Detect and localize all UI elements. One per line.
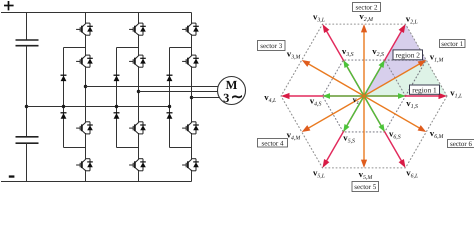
transistor S2c (IGBT with diode) (182, 55, 199, 68)
wire clamp link upper b (117, 47, 139, 49)
center node (362, 94, 365, 97)
wire leg c center (191, 68, 193, 122)
long vector v5,L arrow (327, 96, 365, 161)
sector 6 label box (448, 140, 474, 149)
medium vector v5,M arrow (363, 96, 365, 160)
sector 1 label box (440, 40, 466, 49)
wire leg b lower middle (138, 134, 140, 158)
outer hexagon (dotted) (281, 24, 447, 168)
medium vector v3,M arrow (308, 64, 364, 96)
svg-text:region 1: region 1 (412, 85, 437, 94)
diode D1c (167, 75, 173, 81)
capacitor C1 (16, 40, 39, 46)
short vector v2,S arrow (364, 66, 381, 96)
wire leg c upper middle (191, 36, 193, 55)
transistor S4a (IGBT with diode) (76, 158, 93, 171)
short vector v1,S arrow (364, 95, 399, 97)
wire leg a emitter (85, 171, 87, 181)
short vector v6,S arrow (364, 96, 381, 126)
sector 1 subdivision line v2S-v1M (dotted) (385, 59, 427, 61)
transistor S3c (IGBT with diode) (182, 121, 199, 134)
neutral point junction (25, 105, 28, 108)
sector 2 label box (353, 3, 381, 12)
transistor S4c (IGBT with diode) (182, 158, 199, 171)
short vector v3,S arrow (347, 66, 364, 96)
svg-text:sector 3: sector 3 (260, 42, 282, 50)
region 1 shading (sector 1 lower) (364, 60, 447, 96)
wire leg a collector (85, 13, 87, 23)
diode D2c (167, 113, 173, 119)
transistor S4b (IGBT with diode) (129, 158, 146, 171)
transistor S1c (IGBT with diode) (182, 23, 199, 36)
output node a (84, 85, 87, 88)
svg-text:∼: ∼ (231, 90, 244, 106)
transistor S2a (IGBT with diode) (76, 55, 93, 68)
sector 4 label box (258, 139, 288, 148)
wire leg a lower middle (85, 134, 87, 158)
wire leg c emitter (191, 171, 193, 181)
DC- bus wire (1, 181, 192, 183)
inner hexagon (dotted) (323, 60, 406, 132)
medium vector v6,M arrow (364, 96, 420, 128)
wire leg b upper middle (138, 36, 140, 55)
wire phase output a (86, 86, 220, 88)
wire phase output b (139, 91, 220, 93)
wire phase output c (192, 97, 220, 99)
long vector v4,L arrow (289, 95, 364, 97)
DC+ bus wire (1, 12, 192, 14)
neutral junction c (168, 105, 171, 108)
wire clamp link lower a (64, 147, 86, 149)
region 2 label box (393, 50, 423, 60)
neutral junction a (62, 105, 65, 108)
minus terminal (9, 175, 15, 177)
long vector v2,L arrow (364, 31, 402, 96)
short vector v4,S arrow (330, 95, 365, 97)
wire leg b center (138, 68, 140, 122)
long vector v6,L arrow (364, 96, 402, 161)
wire leg b collector (138, 13, 140, 23)
capacitor C2 (16, 137, 39, 143)
wire DC-link top (26, 13, 28, 41)
svg-text:sector 5: sector 5 (354, 183, 376, 191)
region 2 shading (sector 1 upper) (364, 24, 426, 96)
sector 3 label box (258, 41, 286, 51)
neutral rail wire (27, 106, 170, 108)
transistor S3a (IGBT with diode) (76, 121, 93, 134)
output node b (137, 90, 140, 93)
svg-text:3: 3 (223, 91, 229, 105)
wire clamp branch b (116, 48, 118, 148)
sector 1 subdivision line v1S-v1M (dotted) (406, 60, 427, 96)
short vector v5,S arrow (347, 96, 364, 126)
motor M (218, 77, 246, 106)
diode D1a (61, 75, 67, 81)
diode D2b (114, 113, 120, 119)
wire leg c collector (191, 13, 193, 23)
wire leg a center (85, 68, 87, 122)
diode D2a (61, 113, 67, 119)
wire DC-link middle (26, 46, 28, 137)
wire clamp branch c (169, 48, 171, 148)
wire leg a upper middle (85, 36, 87, 55)
medium vector v2,M arrow (363, 32, 365, 96)
transistor S1a (IGBT with diode) (76, 23, 93, 36)
wire clamp link lower c (170, 147, 192, 149)
medium vector v4,M arrow (308, 96, 364, 128)
wire DC-link bottom (26, 143, 28, 181)
svg-text:region 2: region 2 (396, 51, 421, 60)
wire leg c lower middle (191, 134, 193, 158)
transistor S2b (IGBT with diode) (129, 55, 146, 68)
long vector v3,L arrow (327, 31, 365, 96)
svg-text:sector 6: sector 6 (450, 140, 472, 148)
transistor S3b (IGBT with diode) (129, 121, 146, 134)
wire clamp link upper a (64, 47, 86, 49)
wire leg b emitter (138, 171, 140, 181)
diode D1b (114, 75, 120, 81)
transistor S1b (IGBT with diode) (129, 23, 146, 36)
long vector v1,L arrow (364, 95, 439, 97)
region 1 label box (410, 85, 440, 94)
output node c (190, 96, 193, 99)
neutral junction b (115, 105, 118, 108)
plus terminal (4, 1, 14, 10)
svg-text:sector 1: sector 1 (441, 40, 463, 48)
wire clamp link upper c (170, 47, 192, 49)
sector 5 label box (352, 182, 379, 192)
wire clamp link lower b (117, 147, 139, 149)
medium vector v1,M arrow (364, 64, 420, 96)
svg-text:sector 4: sector 4 (262, 139, 284, 147)
wire clamp branch a (63, 48, 65, 148)
